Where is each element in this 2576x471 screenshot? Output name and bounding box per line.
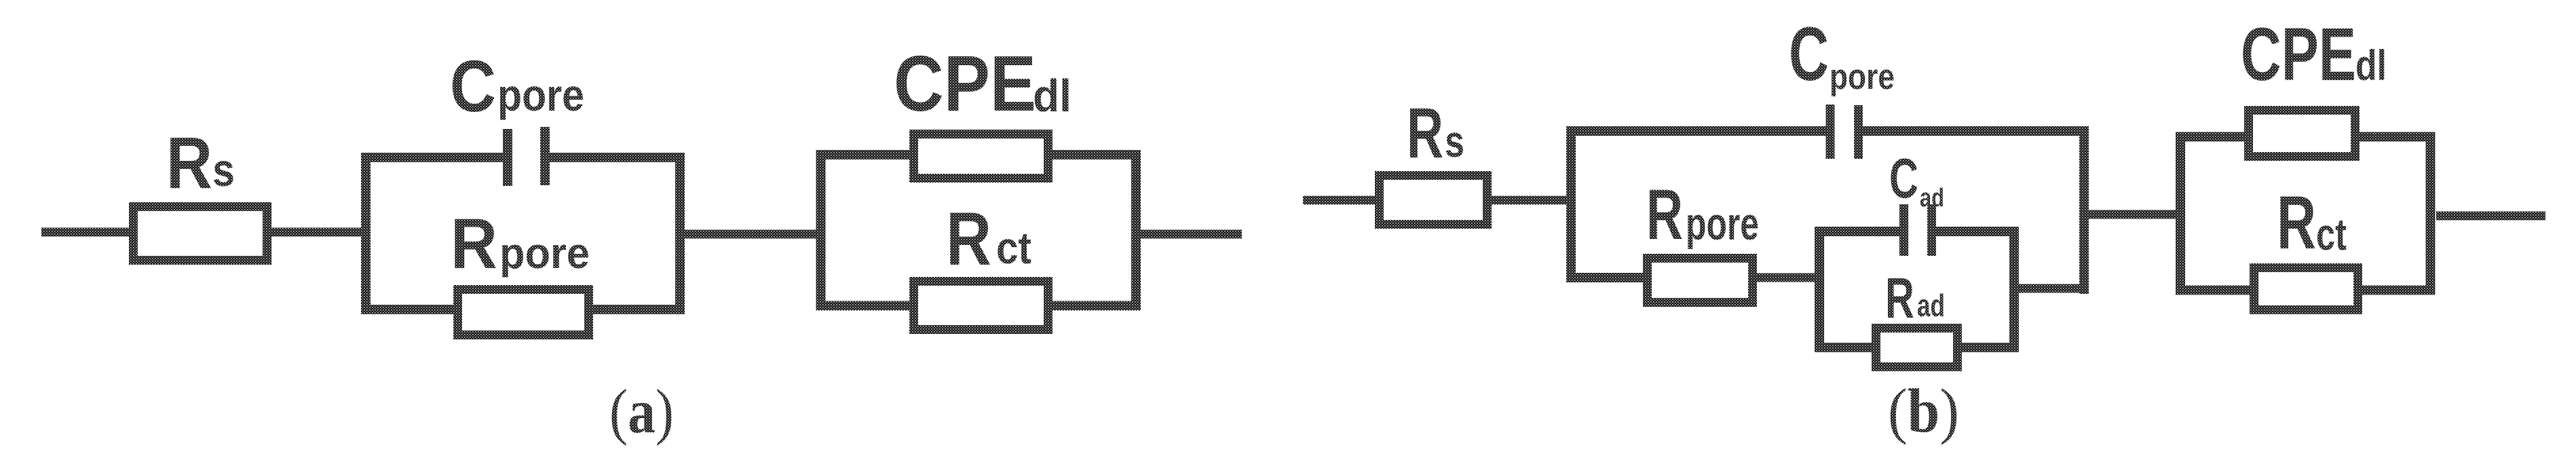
wire: bottom run from Rpore to small loop: [1757, 274, 1818, 282]
capacitor Cpore (b) plate right: [1854, 105, 1863, 159]
parallel loop a2 (CPEdl ∥ Rct): [821, 155, 1137, 306]
resistor Rs (a) body: [134, 207, 267, 261]
wire: small loop exit to big loop right bar: [2014, 284, 2084, 293]
capacitor Cad plate right: [1927, 204, 1936, 256]
CPE element box CPEdl (b): [2249, 111, 2355, 157]
wire: big loop tap to block b3: [2084, 210, 2181, 219]
capacitor C1 plate left (Cpore a): [503, 129, 512, 186]
wire: left terminal of circuit b: [1303, 196, 1380, 205]
parallel loop b3 (CPEdl ∥ Rct): [2180, 137, 2431, 290]
resistor Rct (a) body: [914, 282, 1048, 330]
resistor Rct (b) body: [2254, 268, 2358, 310]
wire: Rs to parallel block a1: [271, 228, 371, 237]
small loop (Cad ∥ Rad): [1819, 231, 2014, 347]
parallel loop a1 (Cpore ∥ Rpore): [366, 157, 680, 309]
big loop (b): top-right run and right bar: [1858, 131, 2084, 294]
capacitor Cad plate left: [1899, 204, 1908, 256]
wire: right terminal of circuit b: [2436, 212, 2545, 221]
capacitor C1 plate right (Cpore a): [540, 127, 550, 185]
wire: right terminal of circuit a: [1141, 230, 1242, 239]
CPE element box CPEdl (a): [914, 134, 1048, 178]
resistor Rpore (a) body: [458, 290, 589, 335]
wire: Rs to junction of big loop: [1492, 196, 1576, 205]
capacitor Cpore (b) plate left: [1826, 105, 1835, 159]
big loop (b): left bar, top-left run, bottom-left run: [1571, 131, 1830, 278]
resistor Rpore (b) body: [1648, 259, 1753, 303]
wire: left terminal of circuit a: [41, 228, 134, 237]
resistor Rs (b) body: [1380, 176, 1488, 225]
wire: block a1 to block a2: [685, 230, 825, 239]
resistor Rad body: [1876, 328, 1958, 367]
